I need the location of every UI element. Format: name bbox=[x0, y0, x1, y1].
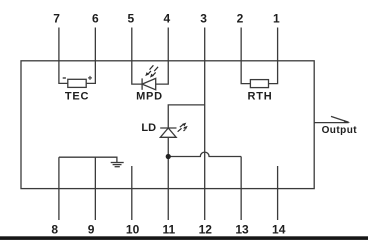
svg-text:4: 4 bbox=[163, 12, 170, 26]
svg-text:1: 1 bbox=[273, 12, 280, 26]
wire TEC to pin6 bbox=[86, 61, 95, 84]
wire pin3 line to LD cathode bbox=[168, 105, 204, 128]
svg-text:6: 6 bbox=[92, 12, 99, 26]
pin 4 lead bbox=[167, 28, 169, 61]
svg-text:TEC: TEC bbox=[65, 91, 89, 103]
RTH thermistor box bbox=[250, 80, 268, 88]
pin 9 lead bbox=[94, 157, 96, 220]
svg-text:13: 13 bbox=[235, 223, 249, 237]
svg-text:8: 8 bbox=[51, 223, 58, 237]
svg-text:3: 3 bbox=[200, 12, 207, 26]
ground wire from pin 8 bbox=[59, 157, 117, 162]
LD light arrow 2 bbox=[182, 125, 189, 132]
svg-text:12: 12 bbox=[199, 223, 213, 237]
pin 13 lead bbox=[240, 157, 242, 221]
output arrow barb bbox=[331, 116, 349, 122]
svg-text:RTH: RTH bbox=[247, 91, 272, 103]
bottom border bar bbox=[0, 236, 368, 240]
pin 7 lead bbox=[58, 28, 60, 61]
pin 1 lead bbox=[277, 28, 279, 61]
LD light arrow 1 bbox=[176, 121, 188, 132]
TEC minus polarity mark bbox=[63, 77, 66, 79]
LD anode wire to pin 11 bbox=[167, 137, 169, 220]
svg-text:9: 9 bbox=[88, 223, 95, 237]
svg-text:10: 10 bbox=[126, 223, 140, 237]
wire RTH to pin1 bbox=[269, 61, 278, 84]
TEC body box bbox=[68, 79, 86, 87]
MPD light arrow 2 bbox=[149, 67, 161, 79]
pin 14 lead (stub) bbox=[277, 166, 279, 220]
LD laser diode triangle bbox=[160, 128, 176, 137]
svg-text:7: 7 bbox=[53, 12, 60, 26]
pin 3 lead (continues to pin 12 inside package) bbox=[204, 28, 206, 221]
svg-text:11: 11 bbox=[163, 223, 176, 237]
svg-text:5: 5 bbox=[127, 12, 134, 26]
MPD photodiode cathode bar bbox=[141, 78, 143, 89]
pin 8 lead bbox=[58, 157, 60, 220]
ground symbol bars bbox=[111, 163, 124, 167]
wire pin2 to RTH bbox=[241, 61, 250, 84]
pin 6 lead bbox=[94, 28, 96, 61]
wire pin7 to TEC bbox=[59, 61, 68, 84]
output fiber wire bbox=[314, 122, 348, 124]
svg-text:LD: LD bbox=[141, 122, 156, 134]
svg-text:Output: Output bbox=[322, 125, 358, 136]
LD laser diode cathode bar bbox=[160, 127, 176, 129]
svg-text:MPD: MPD bbox=[136, 91, 163, 103]
TEC plus polarity mark bbox=[88, 76, 92, 80]
svg-text:14: 14 bbox=[272, 223, 286, 237]
output arrowhead bbox=[344, 120, 351, 123]
MPD light arrow 1 bbox=[144, 65, 156, 77]
MPD photodiode triangle bbox=[142, 78, 156, 89]
package body outline bbox=[21, 61, 314, 189]
pin 5 lead bbox=[131, 28, 133, 61]
junction dot LD anode node bbox=[166, 154, 171, 159]
svg-text:2: 2 bbox=[237, 12, 244, 26]
pin 10 lead (stub) bbox=[131, 166, 133, 220]
pin 2 lead bbox=[240, 28, 242, 61]
wire MPD anode to pin4 bbox=[156, 61, 169, 84]
wire pin5 to MPD cathode bbox=[132, 61, 142, 84]
wire LD node to pin 13 with hop over pin 12 line bbox=[168, 152, 241, 156]
